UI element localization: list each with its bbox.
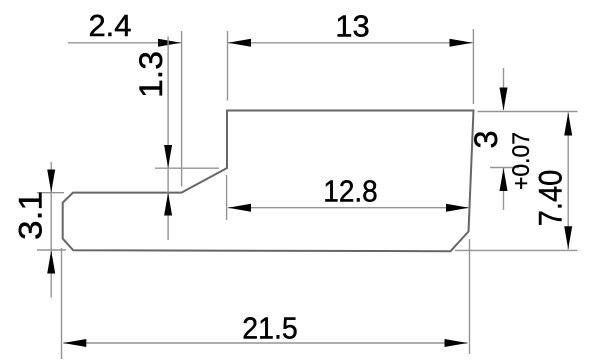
dim 7.40 bottom arrow (down-pointing) <box>564 226 572 249</box>
svg-text:2.4: 2.4 <box>88 8 131 43</box>
dim 21.5 left arrow <box>63 339 86 347</box>
svg-text:13: 13 <box>335 9 369 44</box>
profile outline <box>63 111 474 252</box>
dim 1.3 line <box>167 37 169 241</box>
svg-text:12.8: 12.8 <box>323 173 378 208</box>
dim 3.1 bottom tick <box>37 249 66 251</box>
svg-text:3: 3 <box>468 130 504 148</box>
extension line x=181.6 (slope start, for dim 2.4) <box>181 31 183 187</box>
dim 12.8 right arrow <box>446 204 469 212</box>
extension line x=473.4 (right top corner, for dim 13) <box>472 29 474 104</box>
svg-text:7.40: 7.40 <box>533 170 569 227</box>
dim 12.8 left arrow <box>228 204 251 212</box>
dim 12.8 line <box>228 207 468 209</box>
dim 21.5 line <box>63 342 467 344</box>
dim 3 tick y=167.5 <box>490 167 519 169</box>
svg-text:1.3: 1.3 <box>133 51 169 98</box>
dim 7.40 line <box>567 113 569 250</box>
svg-text:3.1: 3.1 <box>13 191 49 240</box>
dim 3 lower arrow (up-pointing) <box>500 168 508 191</box>
dim 13 left arrow <box>228 39 251 47</box>
dim 7.40 top arrow (up-pointing) <box>564 113 572 136</box>
svg-text:+0.07: +0.07 <box>508 132 535 190</box>
dim 13 right arrow <box>450 39 473 47</box>
dim 21.5 right extension line <box>469 239 471 354</box>
dim 3 upper arrow (down-pointing) <box>500 88 508 111</box>
dim 2.4 arrow (right-pointing) <box>158 39 181 47</box>
dim 3 right: lower line segment <box>503 168 505 210</box>
dim 21.5 left extension line <box>61 248 63 359</box>
svg-text:21.5: 21.5 <box>242 311 298 346</box>
bottom extension line y=249.8 (right of profile) <box>455 249 578 251</box>
dim 1.3 upper arrow (down-pointing) <box>164 145 172 168</box>
dim 3.1 lower arrow (up-pointing) <box>47 251 55 274</box>
dim 3.1 upper arrow (down-pointing) <box>47 170 55 193</box>
dim 3.1 line <box>50 162 52 298</box>
extension line x=227.5 (step edge, for dims 2.4/13) <box>227 31 229 101</box>
top extension line y=111 (right of profile) <box>478 111 578 113</box>
dim 2.4 line <box>68 42 181 44</box>
dim 13 line <box>228 42 473 44</box>
dim 12.8 extension line <box>226 175 228 220</box>
dim 1.3 lower arrow (up-pointing) <box>164 193 172 216</box>
dim 21.5 right arrow <box>445 339 468 347</box>
dim 1.3 tick y=168.2 <box>155 167 219 169</box>
dim 3 right: upper line segment <box>503 68 505 110</box>
dim 3.1 top tick <box>37 192 64 194</box>
